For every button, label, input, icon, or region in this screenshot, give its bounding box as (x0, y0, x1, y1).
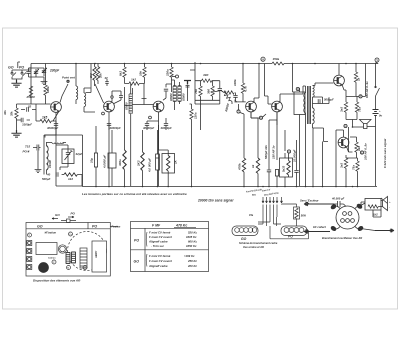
svg-text:S: S (376, 58, 378, 62)
svg-text:1k2: 1k2 (131, 78, 136, 82)
svg-text:5a33: 5a33 (282, 165, 286, 172)
svg-text:470k: 470k (238, 163, 242, 171)
svg-text:✳Fixation: ✳Fixation (44, 231, 57, 235)
resistor R31 1k2 horizontal (62, 174, 64, 176)
svg-text:M: M (67, 268, 69, 270)
node E circled (360, 151, 363, 154)
box output with resistor R33 1k2 (365, 199, 381, 211)
svg-text:≈169 Kc: ≈169 Kc (184, 254, 195, 258)
node T2 collector (111, 96, 113, 98)
table outline (131, 222, 209, 272)
wire detector drops (195, 100, 220, 130)
transistor T5 (272, 101, 283, 112)
capacitor C4 (164, 89, 168, 91)
svg-text:I=123 mA sans signal: I=123 mA sans signal (383, 139, 387, 168)
capacitor C10 40000pF (107, 124, 111, 126)
wire bus junction dots (75, 63, 357, 65)
coil L1 osc primary (75, 64, 77, 87)
capacitor C6 (218, 89, 222, 91)
svg-text:1k8: 1k8 (357, 146, 361, 151)
svg-text:180k: 180k (46, 86, 50, 93)
svg-text:PO: PO (19, 66, 24, 70)
svg-text:Cadran: Cadran (48, 258, 56, 260)
wire T4 T5 emitters to bus (109, 112, 277, 186)
table PO GO divider (131, 249, 209, 251)
wire T3 collector-emitter (159, 91, 167, 125)
wire base feed T1 (31, 103, 51, 105)
socket body (336, 206, 359, 229)
test point Pa (69, 232, 73, 236)
svg-text:R: R (297, 88, 299, 91)
resistor R8 10k vertical (144, 64, 146, 68)
wire main vertical x31 (29, 64, 32, 105)
svg-text:F MF: F MF (152, 224, 161, 228)
svg-text:F maxi CV ouvert: F maxi CV ouvert (149, 259, 173, 263)
arrow right (375, 229, 394, 232)
svg-text:02600: 02600 (169, 93, 173, 101)
svg-text:2K2: 2K2 (137, 160, 141, 167)
IF can small a (66, 253, 70, 264)
resistor R27 470k vertical (243, 114, 245, 158)
panel outline (26, 223, 110, 277)
speaker small right (381, 197, 388, 211)
osc box outline (44, 135, 83, 186)
resistor R18 3a5 vertical (345, 96, 347, 102)
boxed resistor R32 50H (294, 207, 300, 219)
svg-text:+: + (379, 109, 381, 113)
svg-text:GO: GO (241, 237, 247, 241)
ground trimmer (41, 79, 48, 85)
svg-text:Fixation: Fixation (112, 226, 121, 229)
svg-text:560pF 12v: 560pF 12v (264, 145, 268, 159)
svg-text:10.000μF: 10.000μF (293, 149, 297, 162)
svg-text:200 Kc: 200 Kc (187, 264, 197, 268)
wire T5 emitter (277, 94, 303, 125)
node dot (352, 126, 354, 128)
wire bottom bus junction dots (95, 186, 358, 188)
wire drops from driver area (300, 120, 323, 186)
resistor R15 100k horizontal (224, 91, 234, 94)
svg-text:1650 Kc: 1650 Kc (186, 244, 197, 248)
resistor R21 3a5 lower vertical (345, 155, 347, 158)
wire T1 emitter down (53, 112, 56, 121)
node R circled (296, 87, 299, 90)
svg-text:Aligneff cadre: Aligneff cadre (148, 240, 168, 244)
wire mid rail (346, 64, 366, 97)
wire 35k top (17, 104, 32, 133)
dark can (39, 263, 49, 273)
wire socket links (360, 203, 382, 231)
svg-text:150a: 150a (273, 57, 280, 61)
svg-text:3a5: 3a5 (340, 107, 344, 112)
boxed capacitor C20 (108, 153, 116, 168)
wire right end drop (377, 62, 378, 64)
wire top link (344, 204, 347, 207)
wire base vertical T3 (142, 84, 147, 105)
transformer TR1 primary (304, 93, 306, 113)
svg-text:20000 Ω/v sans signal: 20000 Ω/v sans signal (197, 199, 233, 203)
svg-text:75a: 75a (358, 107, 362, 112)
svg-text:1k: 1k (357, 77, 361, 81)
IF transformer MF2 winding a (173, 86, 176, 101)
resistor R22 75a lower vertical (357, 158, 359, 161)
capacitor C11 40000pF (145, 124, 149, 126)
capacitor C5 top plate (184, 81, 191, 85)
svg-text:40.000 μF: 40.000 μF (331, 197, 345, 201)
resistor R19 75a vertical (356, 96, 358, 102)
svg-text:4,7k: 4,7k (244, 86, 248, 93)
wire x45 drop (45, 64, 47, 86)
svg-text:30v: 30v (3, 110, 7, 115)
svg-text:4.0000 μF: 4.0000 μF (103, 155, 107, 169)
svg-text:N: N (260, 117, 262, 120)
wire MF2 links (172, 80, 180, 110)
coil L2 osc secondary (84, 93, 86, 107)
node N circled (259, 116, 262, 119)
transformer TR1 core (308, 86, 311, 124)
resistor R4 35k vertical (16, 104, 18, 108)
svg-text:+: + (389, 200, 391, 204)
svg-text:2k2: 2k2 (89, 73, 93, 79)
wire GO PO divider bracket (18, 62, 20, 68)
electrolytic C13 (157, 130, 159, 186)
resistor R3 1k5 emitter horizontal (40, 119, 51, 122)
table header underline (131, 227, 209, 229)
svg-text:10k: 10k (99, 73, 103, 78)
transformer TR1 secondary top (313, 86, 315, 98)
boxed resistor R25 1k (162, 154, 175, 174)
test point B9 (83, 266, 87, 270)
node G circled (344, 124, 347, 127)
wire secondary links (313, 83, 334, 142)
svg-text:Blin: Blin (252, 195, 257, 197)
svg-text:1k2: 1k2 (373, 213, 378, 217)
svg-text:40000pF: 40000pF (142, 126, 154, 130)
svg-text:10μ: 10μ (90, 158, 94, 163)
capacitor C17 (33, 145, 37, 151)
battery B1 (373, 110, 379, 116)
resistor R16 4k7 vertical (242, 64, 244, 84)
wire T4 base (236, 102, 246, 110)
node M (261, 57, 265, 61)
resistor R11 470 vertical (200, 81, 202, 86)
transistor T3 (153, 101, 164, 112)
resistor R29 1k vertical (257, 121, 259, 158)
svg-text:120a: 120a (194, 112, 198, 119)
resistor R150 150ohm in bus (272, 62, 284, 65)
svg-text:Schéma de branchement cadre: Schéma de branchement cadre (239, 241, 278, 245)
boxed resistor R30 5a33 (280, 158, 293, 177)
svg-text:40000pF: 40000pF (109, 126, 121, 130)
wire detector row (190, 62, 220, 100)
resistor R6 10k vertical (97, 64, 99, 67)
svg-text:PO✳: PO✳ (23, 150, 30, 154)
wire T2 base (95, 84, 104, 103)
svg-text:HF collect: HF collect (313, 225, 326, 229)
svg-text:F maxi CV ouvert: F maxi CV ouvert (149, 235, 173, 239)
svg-text:150 HF 3v: 150 HF 3v (272, 145, 276, 159)
wire switch top links (12, 70, 31, 79)
svg-text:3a5: 3a5 (340, 163, 344, 168)
capacitor C22 47pF (105, 82, 109, 84)
svg-text:- Trim sur: - Trim sur (151, 244, 165, 248)
svg-text:Vue arrière et AR: Vue arrière et AR (243, 245, 264, 249)
svg-text:258 Kc: 258 Kc (187, 259, 197, 263)
table left col divider (144, 228, 146, 271)
mount squares left column (27, 241, 32, 246)
svg-text:1k2: 1k2 (68, 177, 73, 181)
wire T2 emitter (108, 112, 110, 125)
svg-text:GO: GO (134, 260, 140, 264)
svg-text:PO: PO (92, 225, 97, 229)
wire T7 connections (336, 130, 353, 186)
resistor R1 25000 vertical (29, 86, 32, 96)
resistor R9 1k2 horizontal (129, 82, 139, 85)
svg-text:10k: 10k (139, 71, 143, 76)
capacitor C8 500pF (318, 99, 320, 103)
svg-text:715: 715 (25, 145, 30, 149)
svg-text:GO: GO (55, 213, 60, 217)
svg-text:1k: 1k (251, 164, 255, 168)
coil PO cadre (281, 226, 307, 236)
transistor T6 (334, 75, 345, 86)
svg-text:3300pF: 3300pF (22, 123, 32, 127)
wire osc left (37, 158, 39, 167)
wire drops mid (86, 64, 92, 93)
svg-text:760: 760 (194, 89, 198, 94)
svg-text:230pF: 230pF (49, 69, 60, 73)
svg-text:4.0 000 μF: 4.0 000 μF (148, 158, 152, 173)
ground left under switch (11, 80, 21, 87)
electrolytic can circle (58, 245, 66, 253)
svg-text:500μμF: 500μμF (324, 98, 334, 102)
socket inner holes (343, 212, 347, 216)
svg-text:360: 360 (207, 89, 211, 94)
capacitor C7 0.5 (235, 93, 237, 96)
svg-text:AERTr: AERTr (95, 250, 98, 259)
wire point vert lead (60, 80, 68, 103)
wire trimmer links (29, 68, 45, 79)
svg-text:100k: 100k (233, 79, 237, 86)
resistor R13 300 vertical (212, 81, 214, 86)
trimmer CT3 (62, 149, 74, 164)
speaker dashed circle (68, 232, 107, 271)
top bus wire (31, 63, 378, 65)
svg-text:100 HF 6..9v: 100 HF 6..9v (364, 143, 368, 160)
svg-text:PO: PO (288, 235, 293, 239)
wire right rail (375, 96, 377, 186)
wire T3 base link (132, 104, 153, 106)
switch S1 band contacts (12, 70, 26, 77)
svg-text:Serv./ Exciteur: Serv./ Exciteur (300, 199, 319, 203)
pin arrows row (262, 197, 264, 203)
AE block right (92, 241, 107, 272)
wire cadre links (258, 205, 309, 239)
svg-text:75a: 75a (352, 165, 356, 170)
svg-text:520 Kc: 520 Kc (188, 231, 197, 235)
svg-text:G: G (345, 125, 347, 128)
svg-text:300a: 300a (118, 159, 122, 166)
transistor T1 (51, 102, 62, 113)
svg-text:8k2: 8k2 (119, 71, 123, 76)
transistor T2 (104, 101, 115, 112)
test point P (52, 260, 56, 264)
transformer TR1 secondary bottom (313, 108, 315, 124)
wire T4 emitter/collector (251, 98, 259, 118)
wire speaker link (353, 126, 376, 129)
test point V (28, 233, 32, 237)
node F circled (359, 95, 362, 98)
trimmer CT1 (34, 69, 39, 77)
wires pins down (263, 205, 277, 220)
svg-text:40: 40 (46, 173, 51, 177)
capacitor C3 3300pF (21, 118, 23, 122)
capacitor C14 (268, 125, 270, 170)
transistor T4 (246, 101, 257, 112)
IF can small b (72, 252, 76, 263)
arrow left top (304, 202, 334, 206)
svg-text:Disposition des éléments vu: Disposition des éléments vue AR (33, 279, 81, 283)
transformer block (36, 243, 57, 255)
coil GO cadre (232, 226, 258, 236)
trimmer CT2 (42, 68, 47, 76)
node junction circled (176, 75, 179, 78)
svg-text:Point vert: Point vert (62, 76, 76, 80)
arrow left bottom (304, 230, 330, 234)
svg-text:PO: PO (71, 212, 76, 216)
svg-text:.02: .02 (27, 105, 32, 109)
svg-text:600 Kc: 600 Kc (188, 240, 197, 244)
panel header line (26, 223, 110, 229)
capacitor C21 (334, 201, 344, 207)
wire AGC link (213, 91, 221, 93)
coil L3 osc horizontal (52, 143, 64, 144)
resistor R23 300 vertical (124, 87, 126, 150)
capacitor C23 base (119, 96, 123, 98)
svg-text:40000pF: 40000pF (46, 126, 58, 130)
ground bottom left (11, 130, 21, 137)
capacitor C16 (296, 140, 298, 171)
node num T3 (149, 116, 152, 119)
electrolytic C15 (275, 170, 278, 177)
svg-text:Branchement oscillateur Vue: Branchement oscillateur Vue AR (322, 236, 362, 240)
transistor T7 (338, 137, 349, 148)
svg-text:43K: 43K (202, 73, 209, 77)
resistor R24 2k2 vertical (142, 130, 144, 152)
IF transformer MF1 (129, 94, 132, 105)
svg-text:PO: PO (134, 239, 139, 243)
test point M2 (67, 266, 71, 270)
transistor T7 resistor R20 1k8 (356, 137, 358, 142)
svg-text:42pF: 42pF (75, 152, 83, 156)
node S circled (375, 58, 379, 62)
svg-text:-: - (389, 206, 390, 210)
svg-text:1605 Kc: 1605 Kc (186, 235, 197, 239)
capacitor C12 (164, 124, 168, 126)
svg-text:F mini CV fermé: F mini CV fermé (149, 231, 171, 235)
svg-text:15a: 15a (249, 214, 254, 217)
svg-text:Les tensions portées sur ce sc: Les tensions portées sur ce schéma ont é… (82, 192, 187, 196)
resistor R12 43k horizontal (202, 79, 212, 82)
svg-text:25000: 25000 (26, 95, 36, 99)
capacitor C9 40000pF (54, 124, 58, 126)
wire emitter join (346, 120, 357, 153)
node T circled (237, 110, 240, 113)
node A circled (287, 150, 290, 153)
IF transformer MF2 winding b (178, 86, 181, 101)
resistor R17 1k vertical (355, 64, 357, 73)
svg-text:GO: GO (8, 66, 14, 70)
node num T2 (102, 112, 105, 115)
switch S2 (376, 64, 380, 97)
svg-text:02600: 02600 (182, 93, 186, 101)
wire 193 drop (191, 104, 193, 109)
svg-text:220a: 220a (166, 69, 170, 77)
capacitor C2 0.02 (27, 107, 29, 111)
ground osc (35, 167, 42, 173)
capacitor C1 padding (26, 72, 30, 74)
speaker SP (360, 120, 372, 129)
svg-text:01900: 01900 (48, 160, 52, 168)
bottom bus wire (82, 186, 377, 188)
connector ladder (80, 248, 87, 268)
svg-text:9v: 9v (379, 114, 383, 118)
resistor R5 2k2 vertical (94, 64, 96, 67)
wire interstage (251, 64, 272, 119)
resistor R26 470k vertical small (190, 109, 193, 119)
resistor R7 8k2 vertical (124, 64, 126, 68)
capacitor C18 (56, 172, 58, 176)
svg-text:35k: 35k (10, 111, 14, 116)
wire T6 connections (339, 64, 346, 91)
resistor R2 180k vertical (44, 85, 47, 95)
coil L4 osc vertical (47, 146, 49, 170)
thermistor box (294, 92, 305, 115)
resistor R10 2k2 vertical (171, 64, 173, 68)
svg-text:02600: 02600 (125, 102, 129, 110)
svg-text:GO: GO (37, 225, 43, 229)
node point vert (67, 80, 69, 82)
resistor R14 40000 diagonal AGC (223, 91, 232, 101)
svg-text:45W: 45W (40, 267, 46, 270)
socket pads (330, 203, 364, 232)
svg-text:500μF: 500μF (42, 177, 51, 181)
svg-text:Aligneff cadre: Aligneff cadre (148, 264, 168, 268)
svg-text:F mini CV fermé: F mini CV fermé (149, 254, 171, 258)
electrolytic C19 10u (95, 126, 97, 153)
wire osc link up (45, 121, 56, 138)
